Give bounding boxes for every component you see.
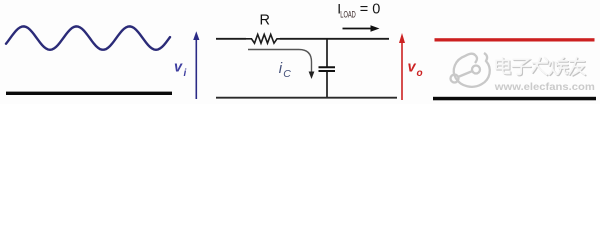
svg-text:LOAD: LOAD: [340, 9, 356, 20]
svg-text:C: C: [283, 68, 291, 80]
arrow v_o: [399, 33, 405, 100]
svg-text:v: v: [408, 60, 417, 76]
arrow I_LOAD: [343, 25, 380, 31]
current arrow i_C: [248, 50, 314, 80]
watermark logo elecfans: [451, 53, 490, 87]
svg-text:o: o: [417, 68, 423, 79]
svg-text:R: R: [260, 12, 270, 28]
svg-text:i: i: [184, 68, 187, 79]
output reference rail (right black bar): [433, 97, 596, 101]
wire bottom: [216, 97, 397, 99]
svg-text:i: i: [279, 60, 283, 77]
resistor R: [246, 34, 280, 43]
svg-text:v: v: [174, 60, 183, 76]
svg-text:www.elecfans.com: www.elecfans.com: [494, 81, 595, 93]
arrow v_i: [193, 31, 199, 99]
input reference rail (left black bar): [6, 92, 172, 95]
label i_C: [279, 60, 291, 80]
input sine waveform: [6, 26, 170, 49]
wire capacitor junction (vertical from top wire): [326, 39, 328, 67]
capacitor C: [319, 67, 336, 97]
wire top: [216, 38, 389, 40]
output rail red (v_o top): [435, 38, 595, 41]
watermark text 电子发烧友: [496, 58, 586, 76]
label I_LOAD = 0: [337, 1, 380, 21]
svg-text:= 0: = 0: [360, 2, 381, 18]
label v_o: [408, 60, 423, 80]
label v_i: [174, 60, 187, 80]
